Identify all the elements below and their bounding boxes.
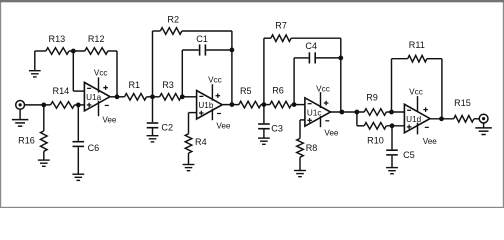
node U1d output (439, 116, 444, 121)
Vee label U1d (423, 137, 438, 146)
resistor R13 (46, 34, 69, 55)
op-amp U1a (84, 82, 110, 111)
ground (R4) (183, 153, 195, 171)
svg-text:C4: C4 (305, 41, 317, 51)
svg-text:Vcc: Vcc (94, 69, 108, 78)
resistor R9 (364, 93, 386, 116)
output terminal (479, 114, 488, 123)
node R14/C6 junction (76, 103, 81, 108)
wire (24, 104, 50, 106)
node R13/R12 junction (71, 49, 76, 54)
svg-text:R13: R13 (49, 34, 66, 44)
wire Vee pin U1a (98, 101, 100, 117)
resistor R4 (185, 113, 206, 154)
node R10/C5 (U1d non-inverting) (390, 123, 395, 128)
Vcc label U1b (208, 75, 222, 84)
Vee label U1c (324, 129, 339, 138)
resistor R8 (297, 120, 318, 157)
Vcc label U1d (409, 87, 423, 96)
svg-text:R3: R3 (162, 80, 174, 90)
svg-text:R15: R15 (454, 98, 471, 108)
node A2 (R5/R6/R7/C3) (262, 102, 267, 107)
svg-text:R6: R6 (272, 86, 284, 96)
svg-text:C2: C2 (161, 122, 173, 132)
resistor R10 (364, 123, 386, 146)
node B2 (R6/C4/U1c-) (292, 102, 297, 107)
wire (35, 50, 46, 52)
Vee label U1a (102, 116, 117, 125)
capacitor C5 (386, 126, 415, 160)
ground (R8) (294, 157, 306, 177)
wire Vcc pin U1b (211, 84, 213, 101)
wire (U1b output) (222, 104, 239, 106)
svg-text:R4: R4 (195, 137, 207, 147)
wire Vcc pin U1c (320, 92, 322, 108)
wire (node B2 up to C4) (294, 58, 309, 105)
svg-text:C5: C5 (403, 150, 415, 160)
wire (R2 to U1b output) (182, 31, 232, 105)
svg-text:U1b: U1b (198, 101, 213, 110)
wire (181, 96, 197, 98)
svg-text:R7: R7 (275, 21, 287, 31)
svg-text:Vee: Vee (324, 129, 339, 138)
Vee label U1b (216, 122, 231, 131)
resistor R3 (160, 80, 182, 100)
svg-text:R8: R8 (306, 143, 318, 153)
wire (node up to R11) (392, 59, 408, 112)
resistor R12 (85, 34, 108, 55)
node B (R3/C1/U1b-) (180, 94, 185, 99)
node U1c output/feedback (340, 110, 345, 115)
wire (147, 96, 160, 98)
resistor R11 (408, 40, 427, 62)
svg-text:R11: R11 (409, 40, 425, 50)
resistor R2 (160, 14, 182, 34)
resistor R1 (125, 80, 147, 100)
resistor R7 (271, 21, 291, 42)
ground (R13 left) (29, 51, 41, 77)
capacitor C3 (258, 105, 283, 134)
svg-text:R12: R12 (88, 34, 105, 44)
wire (U1c output) (331, 111, 365, 113)
wire (C4 to feedback) (316, 57, 341, 59)
resistor R5 (239, 86, 261, 108)
node U1b output (230, 102, 235, 107)
wire (386, 125, 404, 127)
svg-text:U1d: U1d (406, 115, 421, 124)
wire (to R10) (357, 112, 364, 126)
node A (R1/R3/R2/C2) (150, 94, 155, 99)
wire (R7 to U1c output) (291, 38, 341, 112)
resistor R16 (18, 105, 47, 151)
node R9/R11 (U1d inverting) (389, 110, 394, 115)
Vcc label U1c (316, 85, 330, 94)
node R9/R10 split (355, 110, 360, 115)
ground (input terminal) (12, 109, 29, 126)
resistor R14 (51, 86, 75, 108)
svg-text:C6: C6 (88, 143, 100, 153)
ground (output terminal) (475, 123, 492, 135)
wire (261, 104, 270, 106)
svg-text:R10: R10 (367, 136, 384, 146)
capacitor C6 (73, 105, 100, 153)
svg-text:Vcc: Vcc (409, 87, 423, 96)
op-amp U1b (197, 91, 223, 120)
ground (C5) (386, 156, 398, 174)
svg-text:Vee: Vee (102, 116, 117, 125)
op-amp U1c (305, 98, 331, 126)
wire (69, 50, 85, 52)
input terminal (16, 101, 25, 110)
svg-text:R2: R2 (167, 14, 179, 24)
node C4/R7 junction (338, 56, 343, 61)
wire (75, 104, 85, 106)
svg-text:Vee: Vee (216, 122, 231, 131)
ground (C3) (258, 130, 270, 145)
wire Vcc pin U1d (417, 96, 419, 111)
wire Vee pin U1d (417, 123, 419, 135)
wire (C1 to feedback) (206, 49, 232, 51)
capacitor C4 (305, 41, 317, 64)
node C1/R2 junction (230, 48, 235, 53)
wire (386, 111, 404, 113)
wire (node A2 up to R7) (264, 38, 271, 104)
svg-text:C3: C3 (271, 123, 283, 133)
svg-text:R14: R14 (53, 86, 70, 96)
wire (474, 118, 480, 120)
svg-text:U1a: U1a (86, 93, 101, 102)
svg-text:R5: R5 (240, 86, 252, 96)
svg-text:R1: R1 (128, 80, 140, 90)
wire (to U1a inverting input) (73, 51, 84, 91)
node U1a output (115, 94, 120, 99)
Vcc label U1a (94, 69, 108, 78)
resistor R15 (454, 98, 474, 122)
ground (C2) (147, 129, 159, 142)
wire (node B up to C1) (182, 50, 199, 97)
wire (R12 to U1a output) (108, 51, 117, 97)
wire Vee pin U1b (211, 109, 213, 121)
node input/R16 junction (41, 103, 46, 108)
svg-text:R16: R16 (18, 135, 35, 145)
capacitor C2 (147, 97, 173, 133)
ground (R16) (38, 151, 50, 166)
wire (node A up to R2) (153, 31, 161, 97)
wire (U1d output) (430, 118, 454, 120)
wire Vee pin U1c (320, 116, 322, 127)
svg-text:R9: R9 (366, 93, 378, 103)
ground (C6) (72, 147, 84, 180)
wire Vcc pin U1a (98, 77, 100, 92)
wire (R11 to U1d output) (427, 59, 442, 119)
svg-text:C1: C1 (196, 34, 208, 44)
svg-text:Vee: Vee (423, 137, 438, 146)
wire (291, 104, 305, 106)
resistor R6 (270, 86, 292, 108)
svg-text:Vcc: Vcc (208, 75, 222, 84)
op-amp U1d (404, 104, 430, 133)
capacitor C1 (196, 34, 208, 56)
svg-text:Vcc: Vcc (316, 85, 330, 94)
wire (U1a output) (110, 96, 125, 98)
svg-text:U1c: U1c (307, 108, 322, 117)
